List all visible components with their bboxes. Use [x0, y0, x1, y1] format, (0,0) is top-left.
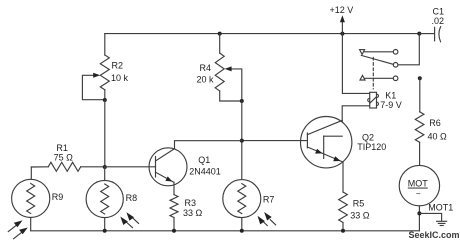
- wire Q2 emitter to R5: [342, 162, 344, 192]
- node R5 bottom: [341, 229, 345, 233]
- wire NO terminal: [365, 77, 393, 79]
- relay coil K1 7-9 V: [368, 91, 402, 111]
- svg-text:R5: R5: [353, 199, 365, 209]
- resistor R5 33 ohm: [339, 192, 370, 231]
- resistor R1 75 ohm: [31, 143, 105, 171]
- wire NO node down to R6: [419, 78, 421, 112]
- wire R2 wiper arm: [82, 73, 104, 100]
- resistor R3 33 ohm: [170, 195, 203, 231]
- wire relay coil bottom to Q2 collector: [342, 106, 370, 136]
- svg-text:K1: K1: [385, 91, 396, 101]
- photoresistor R9: [12, 167, 64, 231]
- transistor Q2 TIP120: [301, 117, 387, 168]
- node R1 right junction: [103, 165, 107, 169]
- relay actuation dashed link: [372, 58, 374, 89]
- wire Q1 base: [105, 166, 156, 168]
- wire bottom rail: [31, 230, 420, 232]
- svg-text:MOT: MOT: [408, 179, 428, 189]
- wire R2 top lead: [104, 34, 106, 55]
- resistor R4 (potentiometer 20 k): [197, 53, 242, 101]
- svg-text:R1: R1: [56, 143, 68, 153]
- relay contact NC circle: [393, 50, 398, 55]
- svg-text:R3: R3: [185, 198, 197, 208]
- svg-text:TIP120: TIP120: [357, 142, 386, 152]
- wire R6 to motor: [419, 142, 421, 165]
- resistor R6 40 ohm: [415, 112, 447, 143]
- node NO branch to R6: [418, 76, 422, 80]
- wire NC terminal: [364, 51, 393, 53]
- svg-text:Q2: Q2: [362, 133, 374, 143]
- photoresistor R8: [86, 167, 137, 231]
- photoresistor R7: [223, 180, 275, 231]
- node +12V junction: [340, 32, 344, 36]
- node R4 top junction: [218, 32, 222, 36]
- svg-text:SeekIC.com: SeekIC.com: [409, 230, 460, 240]
- node R4 bottom: [240, 99, 244, 103]
- wire top rail: [105, 33, 420, 35]
- svg-text:10 k: 10 k: [111, 73, 129, 83]
- svg-text:R2: R2: [112, 61, 124, 71]
- relay NC terminal triangle: [360, 50, 365, 55]
- svg-text:2N4401: 2N4401: [189, 167, 221, 177]
- light arrows R8: [120, 212, 138, 228]
- wire motor bottom: [418, 206, 420, 231]
- svg-text:R9: R9: [52, 192, 64, 202]
- wire C1 node down to relay common: [398, 34, 419, 65]
- wire R2 bottom to R1 node: [104, 100, 106, 167]
- node MOT1: [417, 211, 421, 215]
- svg-text:40 Ω: 40 Ω: [428, 131, 448, 141]
- transistor Q1 2N4401: [149, 148, 221, 186]
- capacitor C1 .02: [419, 6, 444, 41]
- svg-text:33 Ω: 33 Ω: [183, 208, 203, 218]
- node R8 bottom: [103, 229, 107, 233]
- wire R4 top lead: [219, 34, 221, 54]
- wire R4 bottom to R7: [241, 101, 243, 180]
- relay switch blade: [361, 55, 393, 64]
- relay NO terminal triangle: [360, 75, 365, 80]
- svg-text:33 Ω: 33 Ω: [350, 210, 370, 220]
- +12 V supply arrow: [330, 5, 354, 33]
- light arrows R9: [8, 220, 28, 238]
- svg-text:20 k: 20 k: [197, 75, 215, 85]
- resistor R2 (potentiometer 10 k): [100, 55, 128, 100]
- node R7 bottom: [240, 229, 244, 233]
- svg-text:C1: C1: [433, 6, 445, 16]
- wire Q1 emitter: [173, 182, 175, 194]
- wire R4 wiper arm: [225, 66, 242, 101]
- node Q2 base junction: [240, 139, 244, 143]
- ground: [437, 221, 447, 225]
- svg-text:75 Ω: 75 Ω: [54, 153, 74, 163]
- wire +12V to relay coil top: [342, 34, 369, 94]
- light arrows R7: [258, 212, 276, 226]
- svg-text:R6: R6: [429, 118, 441, 128]
- node C1 junction: [417, 32, 421, 36]
- node R3 bottom: [172, 229, 176, 233]
- svg-text:R4: R4: [200, 63, 212, 73]
- svg-text:~: ~: [416, 190, 421, 199]
- motor MOT: [399, 165, 439, 205]
- svg-text:MOT1: MOT1: [428, 203, 453, 213]
- wire to ground: [419, 213, 441, 221]
- relay contact common circle: [393, 63, 398, 68]
- wire Q1 collector: [175, 141, 242, 149]
- svg-text:R7: R7: [263, 194, 275, 204]
- wire Q2 base: [242, 140, 308, 142]
- svg-text:Q1: Q1: [198, 155, 210, 165]
- node R2 bottom: [103, 98, 107, 102]
- svg-text:R8: R8: [126, 193, 138, 203]
- relay contact NO circle: [393, 76, 398, 81]
- svg-text:+12 V: +12 V: [330, 5, 354, 15]
- svg-text:7-9 V: 7-9 V: [380, 100, 402, 110]
- svg-text:.02: .02: [432, 16, 445, 26]
